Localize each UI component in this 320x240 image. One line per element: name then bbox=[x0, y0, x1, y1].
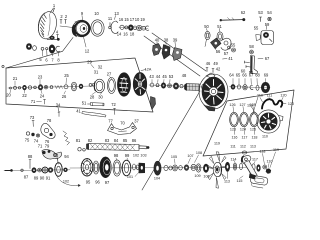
main side plate 42 bbox=[199, 73, 228, 111]
wire: leaders 40 38 39 bbox=[157, 42, 176, 47]
svg-text:55: 55 bbox=[254, 26, 259, 31]
svg-text:59: 59 bbox=[265, 22, 270, 27]
kick lever 78 bbox=[41, 123, 55, 138]
drum 26 bbox=[94, 79, 104, 93]
screw 60 bbox=[246, 65, 251, 67]
svg-text:42: 42 bbox=[216, 67, 221, 72]
o-ring 125 bbox=[250, 112, 259, 126]
svg-text:89: 89 bbox=[34, 176, 39, 181]
washer 100 bbox=[133, 164, 136, 170]
ring 10 bbox=[91, 20, 104, 36]
worm shaft 85 bbox=[87, 144, 150, 151]
wire: leader 12 bbox=[84, 37, 87, 47]
svg-text:55: 55 bbox=[231, 43, 236, 48]
svg-text:99: 99 bbox=[125, 153, 130, 158]
wire: arrow 41 bbox=[223, 58, 228, 61]
wire: leader lines 5 6 7 8 bbox=[43, 50, 59, 56]
handle arm 115 bbox=[240, 154, 257, 179]
washer 105c bbox=[173, 165, 178, 171]
svg-text:22: 22 bbox=[22, 93, 27, 98]
washer 44 bbox=[156, 84, 159, 87]
svg-text:102: 102 bbox=[63, 180, 69, 184]
nut 110d dark bbox=[266, 169, 271, 174]
bracket 40 bbox=[153, 44, 162, 56]
svg-text:44: 44 bbox=[156, 74, 161, 79]
washer 81b bbox=[78, 148, 81, 151]
svg-text:118: 118 bbox=[252, 136, 258, 140]
svg-text:119: 119 bbox=[247, 104, 253, 108]
wire: leaders 116-118 bbox=[235, 128, 255, 135]
kick cam 52 bbox=[211, 38, 222, 49]
washer 23 bbox=[28, 86, 31, 89]
svg-text:14: 14 bbox=[117, 32, 122, 37]
svg-text:120: 120 bbox=[280, 94, 286, 98]
screw 53 bbox=[259, 17, 261, 22]
ring 98 bbox=[113, 160, 121, 176]
washer 87b bbox=[21, 169, 23, 171]
gear 24 dark bbox=[38, 85, 42, 90]
washer 65 bbox=[237, 85, 240, 89]
svg-text:50: 50 bbox=[204, 24, 209, 29]
washer 53b bbox=[168, 84, 172, 88]
svg-text:11: 11 bbox=[108, 16, 113, 21]
svg-text:119: 119 bbox=[273, 148, 279, 152]
washer 64 dark bbox=[231, 84, 235, 89]
bracket 38 bbox=[162, 45, 170, 60]
washer 6 bbox=[33, 46, 37, 51]
bearing 22 dark bbox=[23, 85, 27, 90]
drive plate 32 bbox=[133, 72, 147, 95]
svg-text:48: 48 bbox=[182, 73, 187, 78]
svg-text:110: 110 bbox=[262, 135, 268, 139]
svg-text:31: 31 bbox=[94, 70, 99, 75]
svg-text:127: 127 bbox=[239, 103, 245, 107]
svg-text:56: 56 bbox=[216, 49, 221, 54]
wire: leader washers to plate bbox=[144, 33, 206, 76]
wire: leaders 110 111 120 bbox=[260, 98, 286, 104]
washer 75b bbox=[26, 132, 29, 135]
c-clip 67 bbox=[250, 85, 253, 89]
svg-text:12: 12 bbox=[85, 49, 90, 54]
pin 62 rod bbox=[222, 19, 243, 22]
svg-text:78: 78 bbox=[47, 118, 52, 123]
side cover 1 bbox=[36, 10, 59, 41]
main gear 95 bbox=[81, 159, 93, 176]
c-clip 19 bbox=[145, 26, 148, 30]
wire: leader 12A bbox=[141, 70, 146, 71]
screw 34 bbox=[58, 108, 60, 117]
handle knob 116 bbox=[250, 175, 269, 188]
svg-text:91: 91 bbox=[46, 176, 51, 181]
wire: shaft line 64-69 bbox=[230, 87, 271, 88]
svg-text:37: 37 bbox=[134, 119, 139, 124]
svg-text:49: 49 bbox=[213, 61, 218, 66]
screw 72 bbox=[113, 108, 115, 114]
gear 93 bbox=[55, 163, 62, 177]
svg-text:123: 123 bbox=[230, 128, 236, 132]
wire: label leaders left frame bbox=[10, 77, 112, 95]
svg-text:43: 43 bbox=[149, 74, 154, 79]
gear 92 dark bbox=[48, 168, 53, 173]
svg-text:30: 30 bbox=[98, 95, 103, 100]
gear 18 bbox=[137, 25, 142, 30]
svg-text:25: 25 bbox=[64, 73, 69, 78]
svg-text:28: 28 bbox=[90, 95, 95, 100]
washer 118c bbox=[263, 165, 267, 169]
screw 11 bbox=[109, 23, 111, 27]
bracket 39 bbox=[173, 48, 183, 61]
svg-text:95: 95 bbox=[86, 180, 91, 185]
svg-text:110: 110 bbox=[257, 94, 263, 98]
wire: leaders 117 118 119 110 bbox=[228, 152, 276, 179]
screw 56 bbox=[245, 61, 250, 63]
washer 7a bbox=[41, 47, 44, 50]
drum gear 9 bbox=[72, 20, 90, 37]
bearing 108b dark bbox=[203, 164, 208, 172]
wire: leader 9 bbox=[81, 16, 84, 21]
washer 114b bbox=[240, 163, 243, 169]
svg-text:110: 110 bbox=[267, 160, 273, 164]
svg-text:81: 81 bbox=[76, 138, 81, 143]
svg-text:18: 18 bbox=[130, 32, 135, 37]
washer 89 dark bbox=[32, 168, 36, 173]
part 51 bbox=[217, 32, 223, 41]
washer 46b bbox=[180, 85, 183, 88]
svg-text:32: 32 bbox=[98, 65, 103, 70]
wire: shaft mid right bbox=[149, 85, 203, 87]
gear 7 dark bbox=[49, 45, 55, 53]
washer 105a bbox=[164, 165, 168, 170]
washer 14 bbox=[133, 26, 137, 30]
svg-text:51: 51 bbox=[217, 24, 222, 29]
svg-text:72: 72 bbox=[111, 102, 116, 107]
svg-text:116: 116 bbox=[232, 136, 238, 140]
svg-text:93: 93 bbox=[54, 153, 59, 158]
svg-text:20: 20 bbox=[6, 93, 11, 98]
svg-text:66: 66 bbox=[242, 73, 247, 78]
pin 87 bbox=[5, 170, 11, 172]
wire: shaft line top row bbox=[119, 27, 148, 28]
svg-text:65: 65 bbox=[236, 73, 241, 78]
wire: leaders 126-128 bbox=[233, 107, 254, 113]
wire: leaders 64-69 bbox=[233, 79, 266, 86]
bearing 5 bbox=[26, 44, 31, 50]
bearing 17 dark bbox=[128, 25, 133, 31]
washer 117c dark bbox=[257, 165, 261, 172]
svg-text:40: 40 bbox=[155, 38, 160, 43]
svg-text:10: 10 bbox=[94, 11, 99, 16]
svg-text:103: 103 bbox=[140, 154, 146, 158]
washer 25b bbox=[50, 86, 53, 89]
gear 99 bbox=[122, 160, 131, 176]
svg-text:19: 19 bbox=[140, 17, 145, 22]
svg-text:98: 98 bbox=[114, 153, 119, 158]
wire: long leader plate to bottom gear train bbox=[142, 91, 200, 190]
washer 109 bbox=[196, 164, 201, 172]
svg-text:106: 106 bbox=[203, 175, 209, 179]
svg-text:15: 15 bbox=[124, 17, 129, 22]
washer 21 bbox=[14, 86, 17, 89]
svg-text:64: 64 bbox=[229, 73, 234, 78]
svg-text:58: 58 bbox=[249, 44, 254, 49]
screw 49 bbox=[212, 69, 214, 73]
svg-text:23: 23 bbox=[38, 75, 43, 80]
box 59 bbox=[261, 31, 274, 45]
ring 27 bbox=[107, 78, 115, 94]
drive gear 97 dark bbox=[100, 157, 112, 178]
svg-text:38: 38 bbox=[164, 38, 169, 43]
washer 7b bbox=[46, 48, 48, 50]
svg-text:54: 54 bbox=[267, 10, 272, 15]
svg-text:107: 107 bbox=[187, 154, 193, 158]
svg-text:97: 97 bbox=[105, 180, 110, 185]
part 50 bbox=[205, 31, 210, 39]
washer 106b bbox=[179, 166, 183, 170]
svg-text:79: 79 bbox=[45, 144, 50, 149]
bracket 61 vertical bbox=[251, 56, 258, 75]
svg-text:62: 62 bbox=[241, 10, 246, 15]
ring 63 bbox=[202, 84, 206, 90]
wire: leaders 50 51 bbox=[207, 29, 220, 32]
washer 26c dark bbox=[79, 84, 83, 89]
svg-text:119: 119 bbox=[214, 142, 220, 146]
wire: leader cover to frame corner bbox=[6, 38, 73, 69]
pin 73 bbox=[32, 120, 34, 126]
washer 20a left edge bbox=[2, 65, 4, 67]
washer 112b bbox=[242, 151, 246, 154]
svg-text:68: 68 bbox=[255, 73, 260, 78]
svg-text:45: 45 bbox=[162, 74, 167, 79]
spring 25c bbox=[55, 86, 63, 89]
svg-text:75: 75 bbox=[25, 138, 30, 143]
svg-text:13: 13 bbox=[114, 11, 119, 16]
svg-text:87: 87 bbox=[24, 175, 29, 180]
drag star 112 bbox=[207, 152, 228, 188]
wire: leader from label 1 bbox=[50, 8, 55, 13]
washer 23b bbox=[34, 86, 37, 89]
svg-text:70: 70 bbox=[120, 121, 125, 126]
wire: leaders 43-45 bbox=[152, 80, 170, 84]
svg-text:124: 124 bbox=[240, 128, 246, 132]
wire: bottom-left axis bbox=[4, 169, 70, 172]
washer 58 bbox=[250, 50, 254, 54]
wire: leader 29 arrow bbox=[91, 65, 94, 69]
washer 43 bbox=[150, 83, 154, 87]
svg-text:51: 51 bbox=[82, 101, 87, 106]
gear 104 dark bbox=[154, 161, 161, 175]
washer 25 bbox=[44, 85, 48, 89]
washer 108 bbox=[191, 164, 196, 170]
svg-text:101: 101 bbox=[127, 175, 133, 179]
washer 94 dark bbox=[64, 168, 68, 172]
washer 82b bbox=[83, 149, 86, 152]
svg-text:117: 117 bbox=[252, 158, 258, 162]
spool 33 bbox=[117, 73, 130, 97]
washer 66 bbox=[243, 85, 247, 90]
gear 69 dark bbox=[261, 82, 269, 92]
washer 21b bbox=[18, 87, 20, 89]
svg-text:113: 113 bbox=[250, 145, 256, 149]
svg-text:115: 115 bbox=[237, 179, 243, 183]
washer 90 bbox=[38, 168, 42, 172]
wire: leader 13 bbox=[115, 16, 116, 20]
washer 31b bbox=[92, 84, 95, 87]
wire: main frame parallelogram (left section) bbox=[6, 58, 153, 112]
svg-text:111: 111 bbox=[230, 145, 236, 149]
svg-text:88: 88 bbox=[28, 154, 33, 159]
svg-text:71: 71 bbox=[31, 99, 36, 104]
worm drive 48 knurled bbox=[185, 84, 200, 91]
pin 3 with head bbox=[47, 38, 58, 40]
washer 68 bbox=[256, 85, 259, 90]
svg-text:82: 82 bbox=[88, 138, 93, 143]
svg-text:104: 104 bbox=[154, 177, 160, 181]
svg-text:21: 21 bbox=[13, 76, 18, 81]
svg-text:73: 73 bbox=[30, 115, 35, 120]
wire: leader 59 bbox=[265, 26, 267, 30]
o-ring 124 bbox=[240, 112, 249, 126]
wire: curved arrow 102 bbox=[57, 177, 79, 186]
washer 107 bbox=[184, 165, 188, 171]
wire: main bottom axis bbox=[70, 167, 246, 170]
svg-text:109: 109 bbox=[194, 174, 200, 178]
spring 51b rod bbox=[88, 103, 105, 106]
palm plate 110 bbox=[257, 110, 283, 133]
svg-text:41: 41 bbox=[76, 109, 81, 114]
washer 16 bbox=[120, 25, 124, 29]
washer 74 bbox=[32, 133, 35, 136]
svg-text:113: 113 bbox=[224, 180, 230, 184]
screw 71c bbox=[43, 99, 45, 104]
washer 10b bbox=[142, 26, 146, 30]
bearing 103 dark bbox=[139, 163, 145, 173]
washer 114 bbox=[233, 163, 236, 170]
svg-text:67: 67 bbox=[265, 56, 270, 61]
screw 46 bbox=[206, 68, 208, 72]
gear 91 bbox=[42, 167, 48, 173]
svg-text:105: 105 bbox=[171, 155, 177, 159]
washer 55b bbox=[232, 48, 236, 52]
c-clip 8 bbox=[56, 46, 60, 51]
washer 101 bbox=[136, 165, 139, 169]
o-ring 123 bbox=[230, 112, 239, 126]
bearing 45 dark bbox=[161, 83, 165, 88]
svg-text:26: 26 bbox=[62, 94, 67, 99]
svg-text:69: 69 bbox=[264, 73, 269, 78]
svg-text:67: 67 bbox=[249, 73, 254, 78]
wire: axis cover to drum bbox=[60, 26, 73, 28]
svg-text:16: 16 bbox=[123, 32, 128, 37]
svg-text:96: 96 bbox=[95, 180, 100, 185]
svg-text:84: 84 bbox=[114, 138, 119, 143]
svg-text:12A: 12A bbox=[145, 68, 152, 72]
washer 31a bbox=[89, 84, 92, 87]
svg-text:108: 108 bbox=[196, 151, 202, 155]
svg-text:71: 71 bbox=[38, 144, 43, 149]
bracket 42b tail bbox=[151, 97, 156, 110]
wire: spool shaft centerline bbox=[8, 86, 93, 88]
wire: arrow 67 bbox=[258, 58, 263, 60]
svg-text:112: 112 bbox=[240, 145, 246, 149]
svg-text:102: 102 bbox=[133, 154, 139, 158]
svg-text:114: 114 bbox=[231, 158, 237, 162]
pin 20 bbox=[10, 87, 12, 89]
washer 15 bbox=[125, 26, 128, 29]
svg-text:83: 83 bbox=[105, 138, 110, 143]
svg-text:125: 125 bbox=[250, 128, 256, 132]
screw 4 bbox=[57, 35, 59, 40]
clutch bar 111 dark bbox=[262, 99, 282, 108]
svg-text:27: 27 bbox=[107, 72, 112, 77]
svg-text:120: 120 bbox=[288, 102, 294, 106]
kick lever 79 bbox=[42, 150, 62, 159]
svg-text:10: 10 bbox=[135, 17, 140, 22]
svg-text:94: 94 bbox=[64, 154, 69, 159]
yoke 77 bbox=[108, 123, 137, 135]
gear 47 dark bbox=[173, 83, 178, 89]
bearing 113 dark bbox=[225, 162, 229, 171]
svg-text:118: 118 bbox=[260, 150, 266, 154]
svg-text:90: 90 bbox=[40, 176, 45, 181]
screw 2 (left) bbox=[60, 20, 62, 24]
svg-text:46: 46 bbox=[206, 61, 211, 66]
washer 26a bbox=[64, 85, 68, 89]
bracket 55 bbox=[256, 35, 261, 41]
clip 13 bbox=[111, 21, 118, 33]
svg-text:53: 53 bbox=[258, 10, 263, 15]
clutch lever 41b bbox=[82, 112, 106, 118]
svg-text:16: 16 bbox=[119, 17, 124, 22]
svg-text:77: 77 bbox=[108, 119, 113, 124]
svg-text:126: 126 bbox=[229, 103, 235, 107]
wire: leader 119 palm bbox=[251, 97, 258, 115]
wire: bottom-right frame parallelogram bbox=[203, 90, 294, 156]
svg-text:41: 41 bbox=[228, 56, 233, 61]
wire: leader 93 bbox=[57, 158, 58, 165]
washer 54 bbox=[268, 17, 271, 20]
spring 80 zigzag bbox=[63, 131, 70, 145]
ring 26b bbox=[71, 82, 77, 91]
washer 76 bbox=[36, 134, 39, 137]
svg-text:29: 29 bbox=[87, 60, 92, 65]
svg-text:117: 117 bbox=[242, 136, 248, 140]
ring 96 bbox=[93, 161, 99, 174]
svg-text:24: 24 bbox=[40, 94, 45, 99]
svg-text:53: 53 bbox=[169, 74, 174, 79]
washer 105b bbox=[169, 166, 172, 170]
svg-text:39: 39 bbox=[173, 38, 178, 43]
washer 117b bbox=[252, 164, 255, 170]
svg-text:111: 111 bbox=[267, 94, 273, 98]
svg-text:34: 34 bbox=[56, 103, 61, 108]
svg-text:85: 85 bbox=[123, 138, 128, 143]
screw 2 (right) bbox=[65, 20, 67, 24]
svg-text:86: 86 bbox=[132, 138, 137, 143]
pin 88 bbox=[29, 160, 31, 169]
wire: leaders bottom labels bbox=[58, 155, 199, 177]
